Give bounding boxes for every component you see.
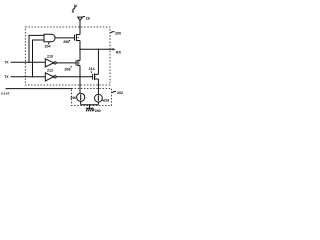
svg-text:240: 240 — [95, 109, 101, 113]
svg-text:RX: RX — [116, 50, 122, 54]
svg-text:200: 200 — [115, 31, 121, 35]
svg-text:202: 202 — [117, 91, 123, 95]
svg-text:212: 212 — [47, 68, 53, 72]
svg-text:216: 216 — [70, 96, 76, 100]
svg-text:218: 218 — [104, 99, 110, 103]
svg-text:28: 28 — [86, 16, 90, 20]
svg-text:214: 214 — [89, 67, 95, 71]
svg-text:204: 204 — [45, 44, 51, 48]
svg-text:eset: eset — [1, 91, 10, 95]
svg-text:10: 10 — [74, 4, 78, 8]
svg-text:206: 206 — [63, 40, 69, 44]
svg-text:210: 210 — [47, 54, 53, 58]
svg-text:208: 208 — [64, 67, 70, 71]
